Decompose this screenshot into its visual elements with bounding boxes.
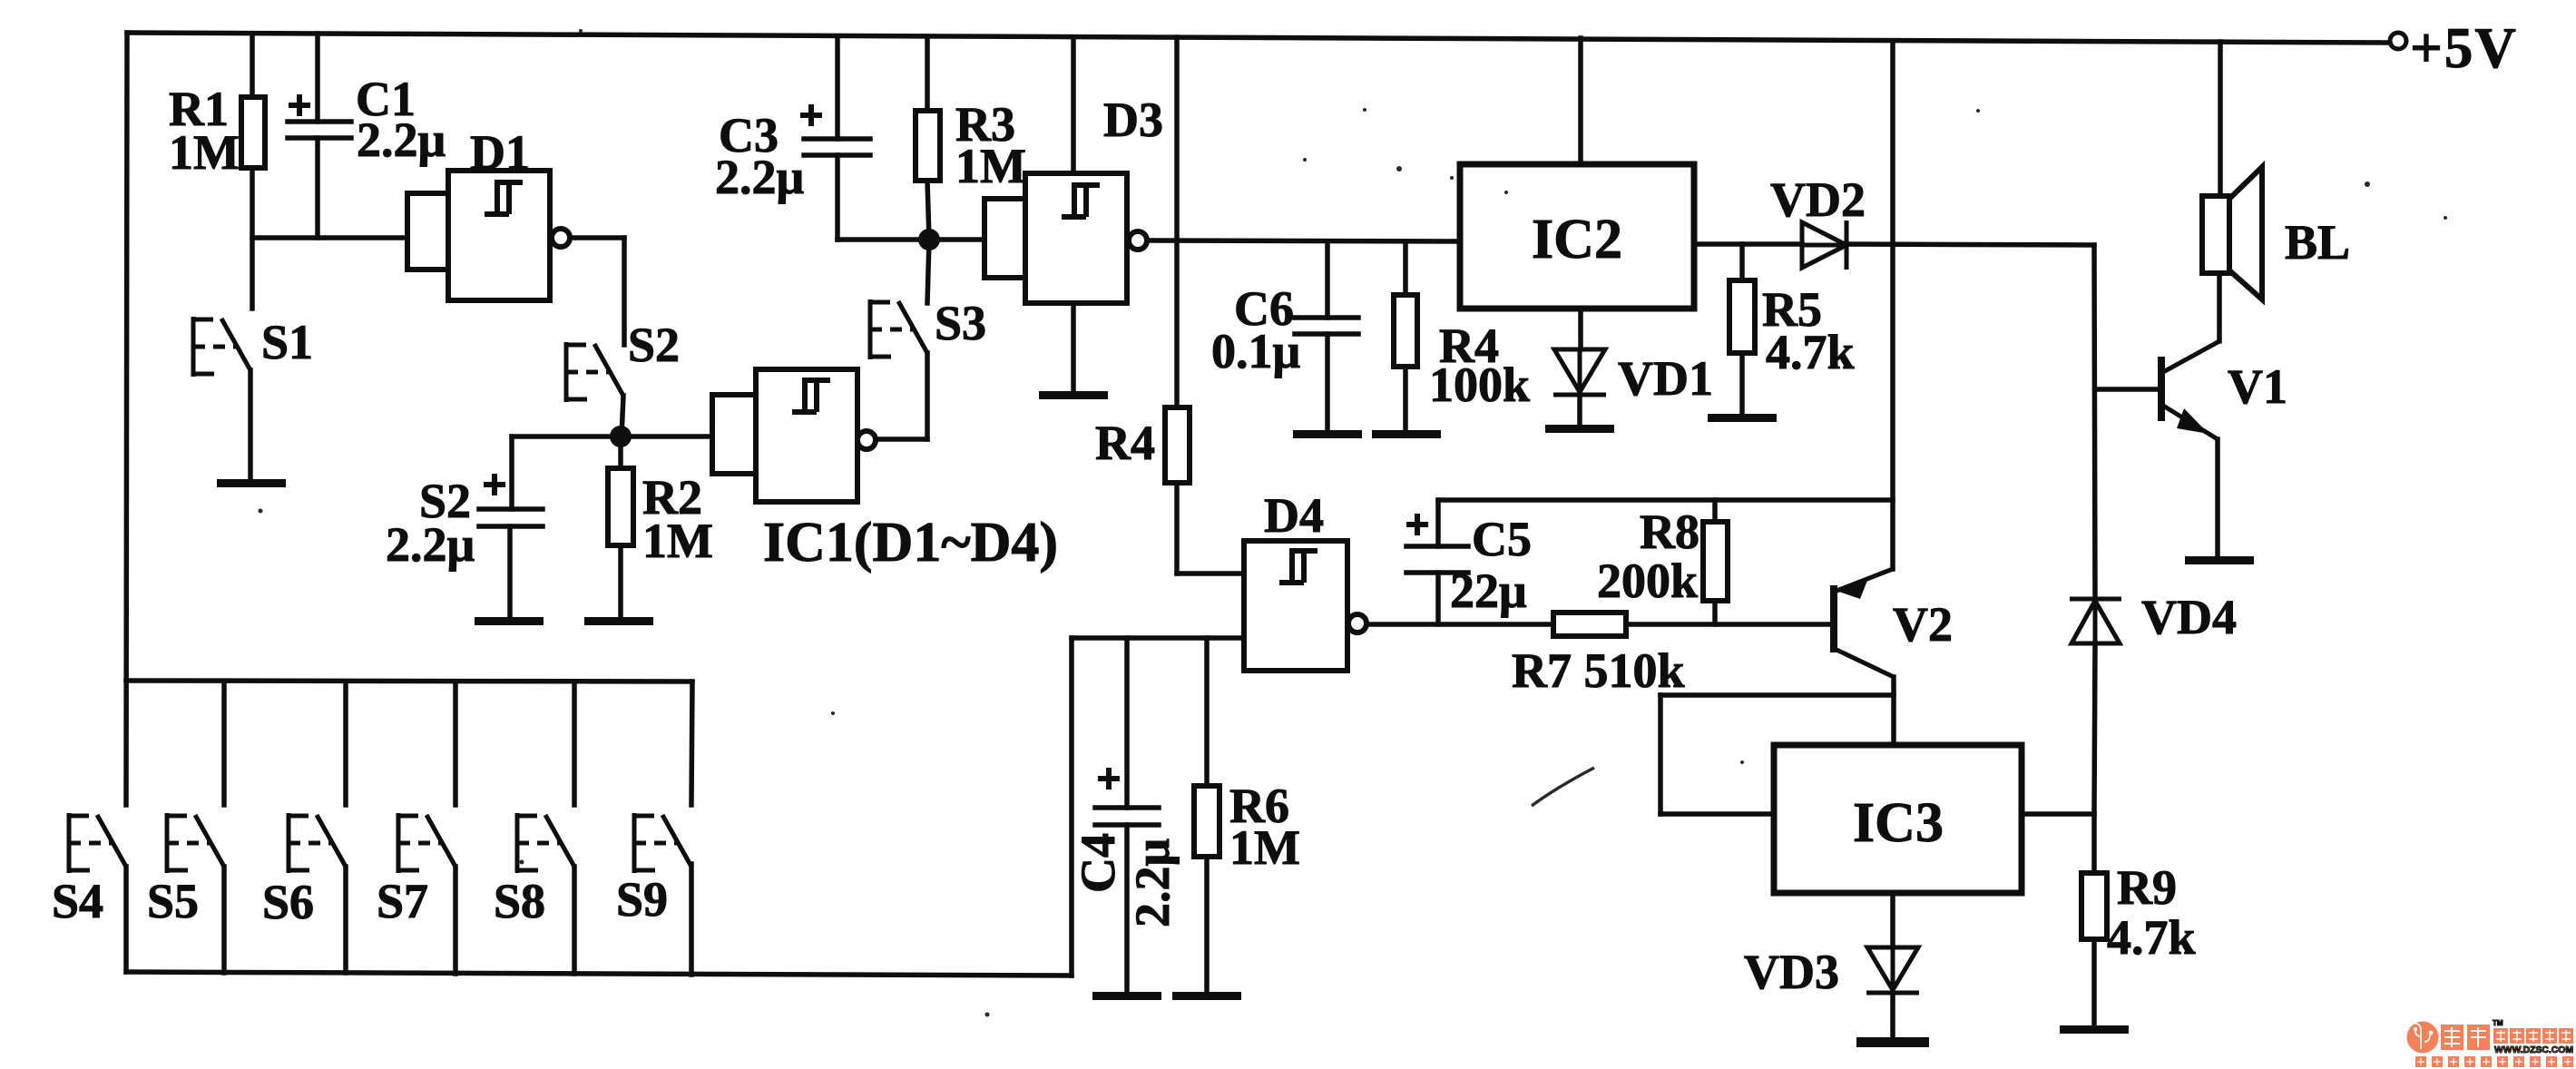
svg-text:S9: S9 [616, 872, 668, 927]
svg-text:2.2μ: 2.2μ [357, 113, 446, 167]
svg-text:C5: C5 [1472, 512, 1532, 566]
svg-text:0.1μ: 0.1μ [1211, 324, 1300, 378]
svg-text:V1: V1 [2228, 359, 2287, 414]
svg-text:WWW.DZSC.COM: WWW.DZSC.COM [2494, 1045, 2573, 1055]
svg-text:IC1(D1~D4): IC1(D1~D4) [763, 512, 1058, 574]
svg-text:C4: C4 [1071, 833, 1125, 893]
svg-text:S2: S2 [628, 318, 680, 372]
svg-text:2.2μ: 2.2μ [1125, 839, 1180, 927]
svg-text:1M: 1M [955, 139, 1026, 193]
svg-text:S1: S1 [261, 315, 313, 369]
svg-text:R9: R9 [2117, 860, 2177, 915]
svg-text:S6: S6 [262, 875, 314, 929]
svg-text:VD2: VD2 [1770, 172, 1866, 227]
svg-text:BL: BL [2285, 215, 2350, 270]
svg-text:IC3: IC3 [1853, 792, 1944, 854]
svg-text:S7: S7 [377, 874, 428, 928]
svg-text:4.7k: 4.7k [2107, 910, 2196, 965]
svg-text:4.7k: 4.7k [1766, 325, 1855, 379]
svg-text:R4: R4 [1095, 416, 1155, 470]
svg-text:200k: 200k [1597, 554, 1698, 608]
svg-text:S4: S4 [52, 874, 103, 928]
svg-text:S3: S3 [935, 296, 986, 350]
svg-text:D1: D1 [470, 125, 530, 180]
svg-text:S8: S8 [494, 874, 545, 928]
svg-text:100k: 100k [1429, 358, 1530, 412]
svg-text:R8: R8 [1640, 505, 1699, 559]
svg-text:D4: D4 [1264, 488, 1324, 543]
svg-text:+5V: +5V [2410, 16, 2518, 80]
svg-text:VD1: VD1 [1618, 351, 1713, 406]
svg-text:V2: V2 [1893, 597, 1953, 652]
svg-text:VD3: VD3 [1744, 945, 1839, 999]
svg-text:1M: 1M [1229, 820, 1300, 875]
svg-text:R7 510k: R7 510k [1512, 643, 1685, 698]
svg-text:S5: S5 [147, 874, 199, 928]
svg-text:2.2μ: 2.2μ [715, 150, 804, 204]
svg-text:D3: D3 [1103, 93, 1163, 147]
svg-text:2.2μ: 2.2μ [386, 517, 475, 572]
svg-text:TM: TM [2493, 1019, 2503, 1027]
svg-text:1M: 1M [169, 125, 240, 180]
svg-text:1M: 1M [642, 514, 713, 568]
svg-text:IC2: IC2 [1532, 209, 1622, 270]
svg-text:VD4: VD4 [2141, 590, 2237, 644]
svg-text:22μ: 22μ [1450, 564, 1527, 618]
